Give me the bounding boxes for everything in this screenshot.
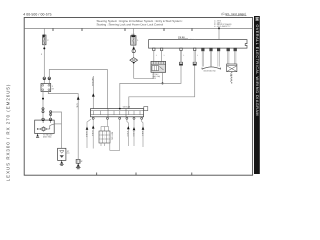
svg-text:1: 1 (156, 54, 157, 57)
ground connector box (76, 159, 80, 163)
bottom border tick 3 (191, 173, 193, 176)
power bus line (24, 27, 252, 29)
bus tick 1 (52, 28, 54, 31)
node on left wire (42, 98, 44, 100)
small connector box at strip right end (144, 107, 148, 111)
wire branch to junction connector (horizontal upper-left) (49, 70, 107, 109)
grid block outputs (100, 143, 102, 146)
wire diamond to ST relay left terminal (134, 64, 154, 79)
mechanical link dashed (231, 72, 233, 85)
ignition switch wires (202, 48, 221, 51)
grid block (key interlock) (99, 131, 110, 143)
wire ST box bottom-right to ground branch (48, 92, 78, 160)
exit wire e (127, 119, 128, 146)
node below fuse F1 (43, 47, 45, 49)
svg-text:W-B 2: W-B 2 (85, 132, 88, 138)
svg-text:AM2 B-W: AM2 B-W (91, 78, 94, 87)
noise filter diamond (130, 58, 138, 64)
ground symbol left (76, 163, 81, 169)
right sidebar bar (254, 16, 260, 174)
pins into switch box (43, 80, 45, 84)
bus junction node (218, 27, 220, 29)
svg-text:KEY SW: KEY SW (111, 132, 114, 140)
inline connector pair on bridge (50, 111, 52, 113)
starter motor box (58, 148, 66, 160)
starter relay unit box (151, 61, 166, 72)
junction connector strip (91, 109, 144, 117)
key cylinder box (227, 64, 237, 72)
starter relay box (35, 120, 55, 133)
fuse F1 (43, 35, 46, 45)
exit wire g (142, 119, 143, 147)
J/C exit connector circles (92, 117, 143, 119)
ignition switch arc (202, 67, 221, 69)
flow arrow on ground wire (77, 96, 80, 99)
relay ground stub (36, 134, 39, 138)
bottom border tick 1 (96, 173, 98, 176)
wire fuse F1 down (43, 45, 45, 77)
relay terminal left (42, 118, 45, 121)
wire relay unit right terminal to line1 (162, 72, 164, 83)
svg-text:C9 C10: C9 C10 (123, 105, 131, 108)
key cylinder terminals (227, 48, 230, 51)
svg-text:4 00-500 / 00-575: 4 00-500 / 00-575 (23, 13, 51, 17)
junction node on strip top (119, 108, 121, 110)
wire ST box bottom-left down (42, 92, 44, 119)
bus tick 5 (191, 28, 193, 31)
svg-text:M: M (254, 17, 259, 21)
svg-text:KEY CYL: KEY CYL (229, 74, 232, 83)
starter ground (60, 160, 64, 165)
wire fuse F2 down (133, 45, 135, 58)
svg-text:W-B: W-B (76, 104, 79, 109)
key cylinder wires (228, 51, 236, 64)
line2 horizontal (129, 65, 195, 108)
svg-text:L-W 6: L-W 6 (126, 131, 129, 137)
bridge wire relay to starter (51, 112, 62, 148)
feeder wire with code (92, 76, 94, 109)
grid right output L-wire (110, 119, 120, 150)
wire bus to fuse F1 (43, 28, 45, 35)
inline connector pair left (42, 108, 44, 110)
svg-text:IGNITION SW: IGNITION SW (204, 70, 216, 73)
svg-text:1: 1 (183, 54, 184, 57)
bottom border tick 2 (135, 173, 137, 176)
engine room R/B big box (149, 40, 247, 49)
svg-text:LEXUS RX300 / RX 270 (EM26U5): LEXUS RX300 / RX 270 (EM26U5) (6, 84, 11, 182)
connector pin circle B (48, 77, 51, 80)
node below fuse F2 (133, 47, 135, 49)
svg-text:1: 1 (197, 54, 198, 57)
fuse F2 (131, 35, 136, 45)
svg-text:OVERALL ELECTRICAL WIRING DIAG: OVERALL ELECTRICAL WIRING DIAGRAM (255, 25, 259, 117)
wire connector to R/B stub 2 (193, 51, 195, 63)
exit wire a (far left) (87, 119, 91, 148)
header system titles (97, 19, 184, 26)
svg-text:W-B 4: W-B 4 (91, 131, 94, 137)
exit wire f (133, 119, 135, 146)
bus tick 4 (163, 28, 165, 31)
svg-text:(MG SW): (MG SW) (43, 136, 52, 139)
bus tick 3 (124, 28, 126, 31)
svg-text:4 : W-R 4WD/CTY: 4 : W-R 4WD/CTY (214, 25, 231, 28)
flow arrow on feeder (92, 93, 95, 96)
wires R/B to ST relay unit (153, 51, 155, 62)
svg-text:1: 1 (164, 54, 165, 57)
svg-text:(Cont. next page): (Cont. next page) (221, 12, 246, 16)
wire bus to fuse F2 (132, 28, 134, 35)
bus tick 2 (81, 28, 83, 31)
wire connector to R/B stub (179, 51, 181, 63)
relay switched output to starter (54, 123, 61, 125)
connector box on wire x191 (193, 62, 196, 65)
svg-text:Starting : Steering Lock and: Starting : Steering Lock and Power Door … (97, 22, 164, 26)
diagram frame (24, 18, 252, 176)
svg-text:2: 2 (41, 53, 42, 56)
inline connector below F2 (132, 49, 135, 52)
wire bus node to R/B (218, 28, 220, 39)
exit wire c to grid block (107, 119, 109, 126)
connector box on wire x180 (179, 62, 182, 65)
exit wire b (92, 119, 94, 148)
line1 horizontal (120, 65, 181, 108)
ignition switch box ST (41, 84, 51, 92)
starter stub right (66, 152, 70, 154)
legend notes top-right (214, 19, 232, 28)
connector pin circle A (43, 77, 46, 80)
R/B terminal circles to ST relay (153, 48, 155, 50)
relay terminal right (49, 118, 52, 121)
